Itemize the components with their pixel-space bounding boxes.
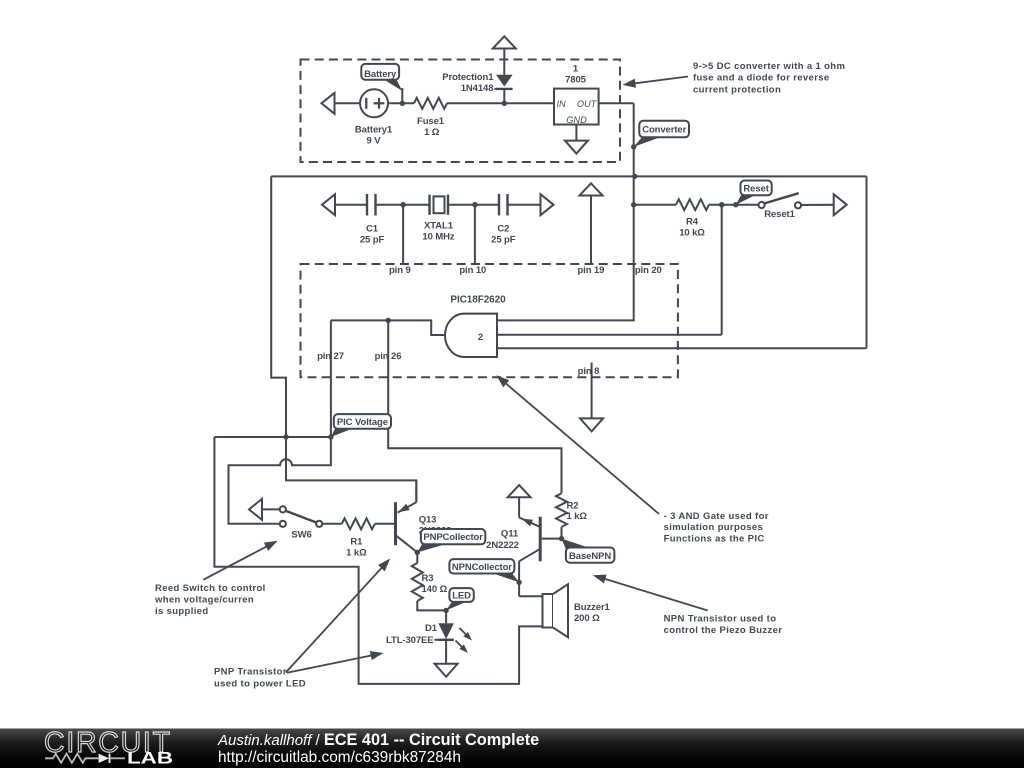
svg-text:NPNCollector: NPNCollector [452,562,512,573]
svg-text:10 MHz: 10 MHz [422,231,454,242]
svg-text:Reset1: Reset1 [764,209,795,220]
svg-text:IN: IN [557,99,567,109]
svg-text:pin 19: pin 19 [577,265,604,276]
svg-text:PIC18F2620: PIC18F2620 [450,294,506,305]
svg-text:R2: R2 [567,500,579,511]
svg-text:1 kΩ: 1 kΩ [346,548,367,559]
svg-text:25 pF: 25 pF [491,235,516,246]
svg-text:200 Ω: 200 Ω [574,613,600,624]
svg-text:25 pF: 25 pF [360,235,385,246]
svg-text:9 V: 9 V [367,135,382,146]
svg-text:Fuse1: Fuse1 [417,116,445,127]
svg-text:9->5 DC converter with a 1 ohm: 9->5 DC converter with a 1 ohm [693,61,845,72]
svg-text:2N2222: 2N2222 [486,540,519,551]
svg-text:PIC Voltage: PIC Voltage [337,417,388,428]
svg-text:OUT: OUT [577,99,598,109]
svg-text:140 Ω: 140 Ω [422,584,448,595]
svg-text:1 Ω: 1 Ω [424,127,440,138]
svg-text:10 kΩ: 10 kΩ [679,227,705,238]
svg-text:Q13: Q13 [419,514,437,525]
svg-text:Protection1: Protection1 [442,72,494,83]
svg-text:LAB: LAB [127,749,173,768]
svg-text:Reset: Reset [743,184,769,195]
svg-text:C2: C2 [497,224,509,235]
svg-text:Converter: Converter [642,125,686,136]
svg-text:7805: 7805 [565,75,587,86]
svg-text:- 3 AND Gate used for: - 3 AND Gate used for [664,511,769,522]
svg-text:when voltage/curren: when voltage/curren [154,595,254,606]
svg-text:Reed Switch to control: Reed Switch to control [155,583,266,594]
svg-text:1 kΩ: 1 kΩ [567,511,588,522]
svg-text:Buzzer1: Buzzer1 [574,602,611,613]
svg-text:PNP Transistor: PNP Transistor [214,666,287,677]
svg-text:LED: LED [452,590,471,601]
svg-text:NPN Transistor used to: NPN Transistor used to [664,614,777,625]
svg-text:fuse and a diode for reverse: fuse and a diode for reverse [693,73,830,84]
svg-text:pin 20: pin 20 [635,265,662,276]
svg-text:is supplied: is supplied [155,606,208,617]
svg-text:D1: D1 [425,623,438,634]
svg-text:PNPCollector: PNPCollector [423,532,483,543]
svg-text:http://circuitlab.com/c639rbk8: http://circuitlab.com/c639rbk87284h [218,749,461,766]
svg-text:R3: R3 [422,573,434,584]
svg-text:Battery: Battery [364,69,397,80]
svg-text:SW6: SW6 [291,529,311,540]
svg-text:pin 8: pin 8 [578,366,600,377]
svg-text:LTL-307EE: LTL-307EE [386,635,434,646]
svg-text:simulation purposes: simulation purposes [664,522,764,533]
svg-text:used to power LED: used to power LED [214,679,306,690]
svg-text:GND: GND [566,115,587,125]
svg-text:pin 9: pin 9 [389,265,411,276]
svg-text:R1: R1 [350,537,363,548]
svg-text:Battery1: Battery1 [355,124,393,135]
svg-text:1N4148: 1N4148 [461,83,494,94]
svg-text:Functions as the PIC: Functions as the PIC [664,534,765,545]
svg-text:Q11: Q11 [501,529,519,540]
svg-text:current protection: current protection [693,84,781,95]
svg-text:R4: R4 [686,216,699,227]
svg-text:2: 2 [478,332,483,343]
svg-text:pin 10: pin 10 [459,265,486,276]
svg-text:C1: C1 [366,224,379,235]
svg-text:XTAL1: XTAL1 [424,220,454,231]
svg-text:Austin.kallhoff / ECE 401 -- C: Austin.kallhoff / ECE 401 -- Circuit Com… [217,731,539,749]
svg-text:BaseNPN: BaseNPN [569,551,611,562]
svg-text:control the Piezo Buzzer: control the Piezo Buzzer [664,625,783,636]
svg-text:1: 1 [573,64,579,75]
